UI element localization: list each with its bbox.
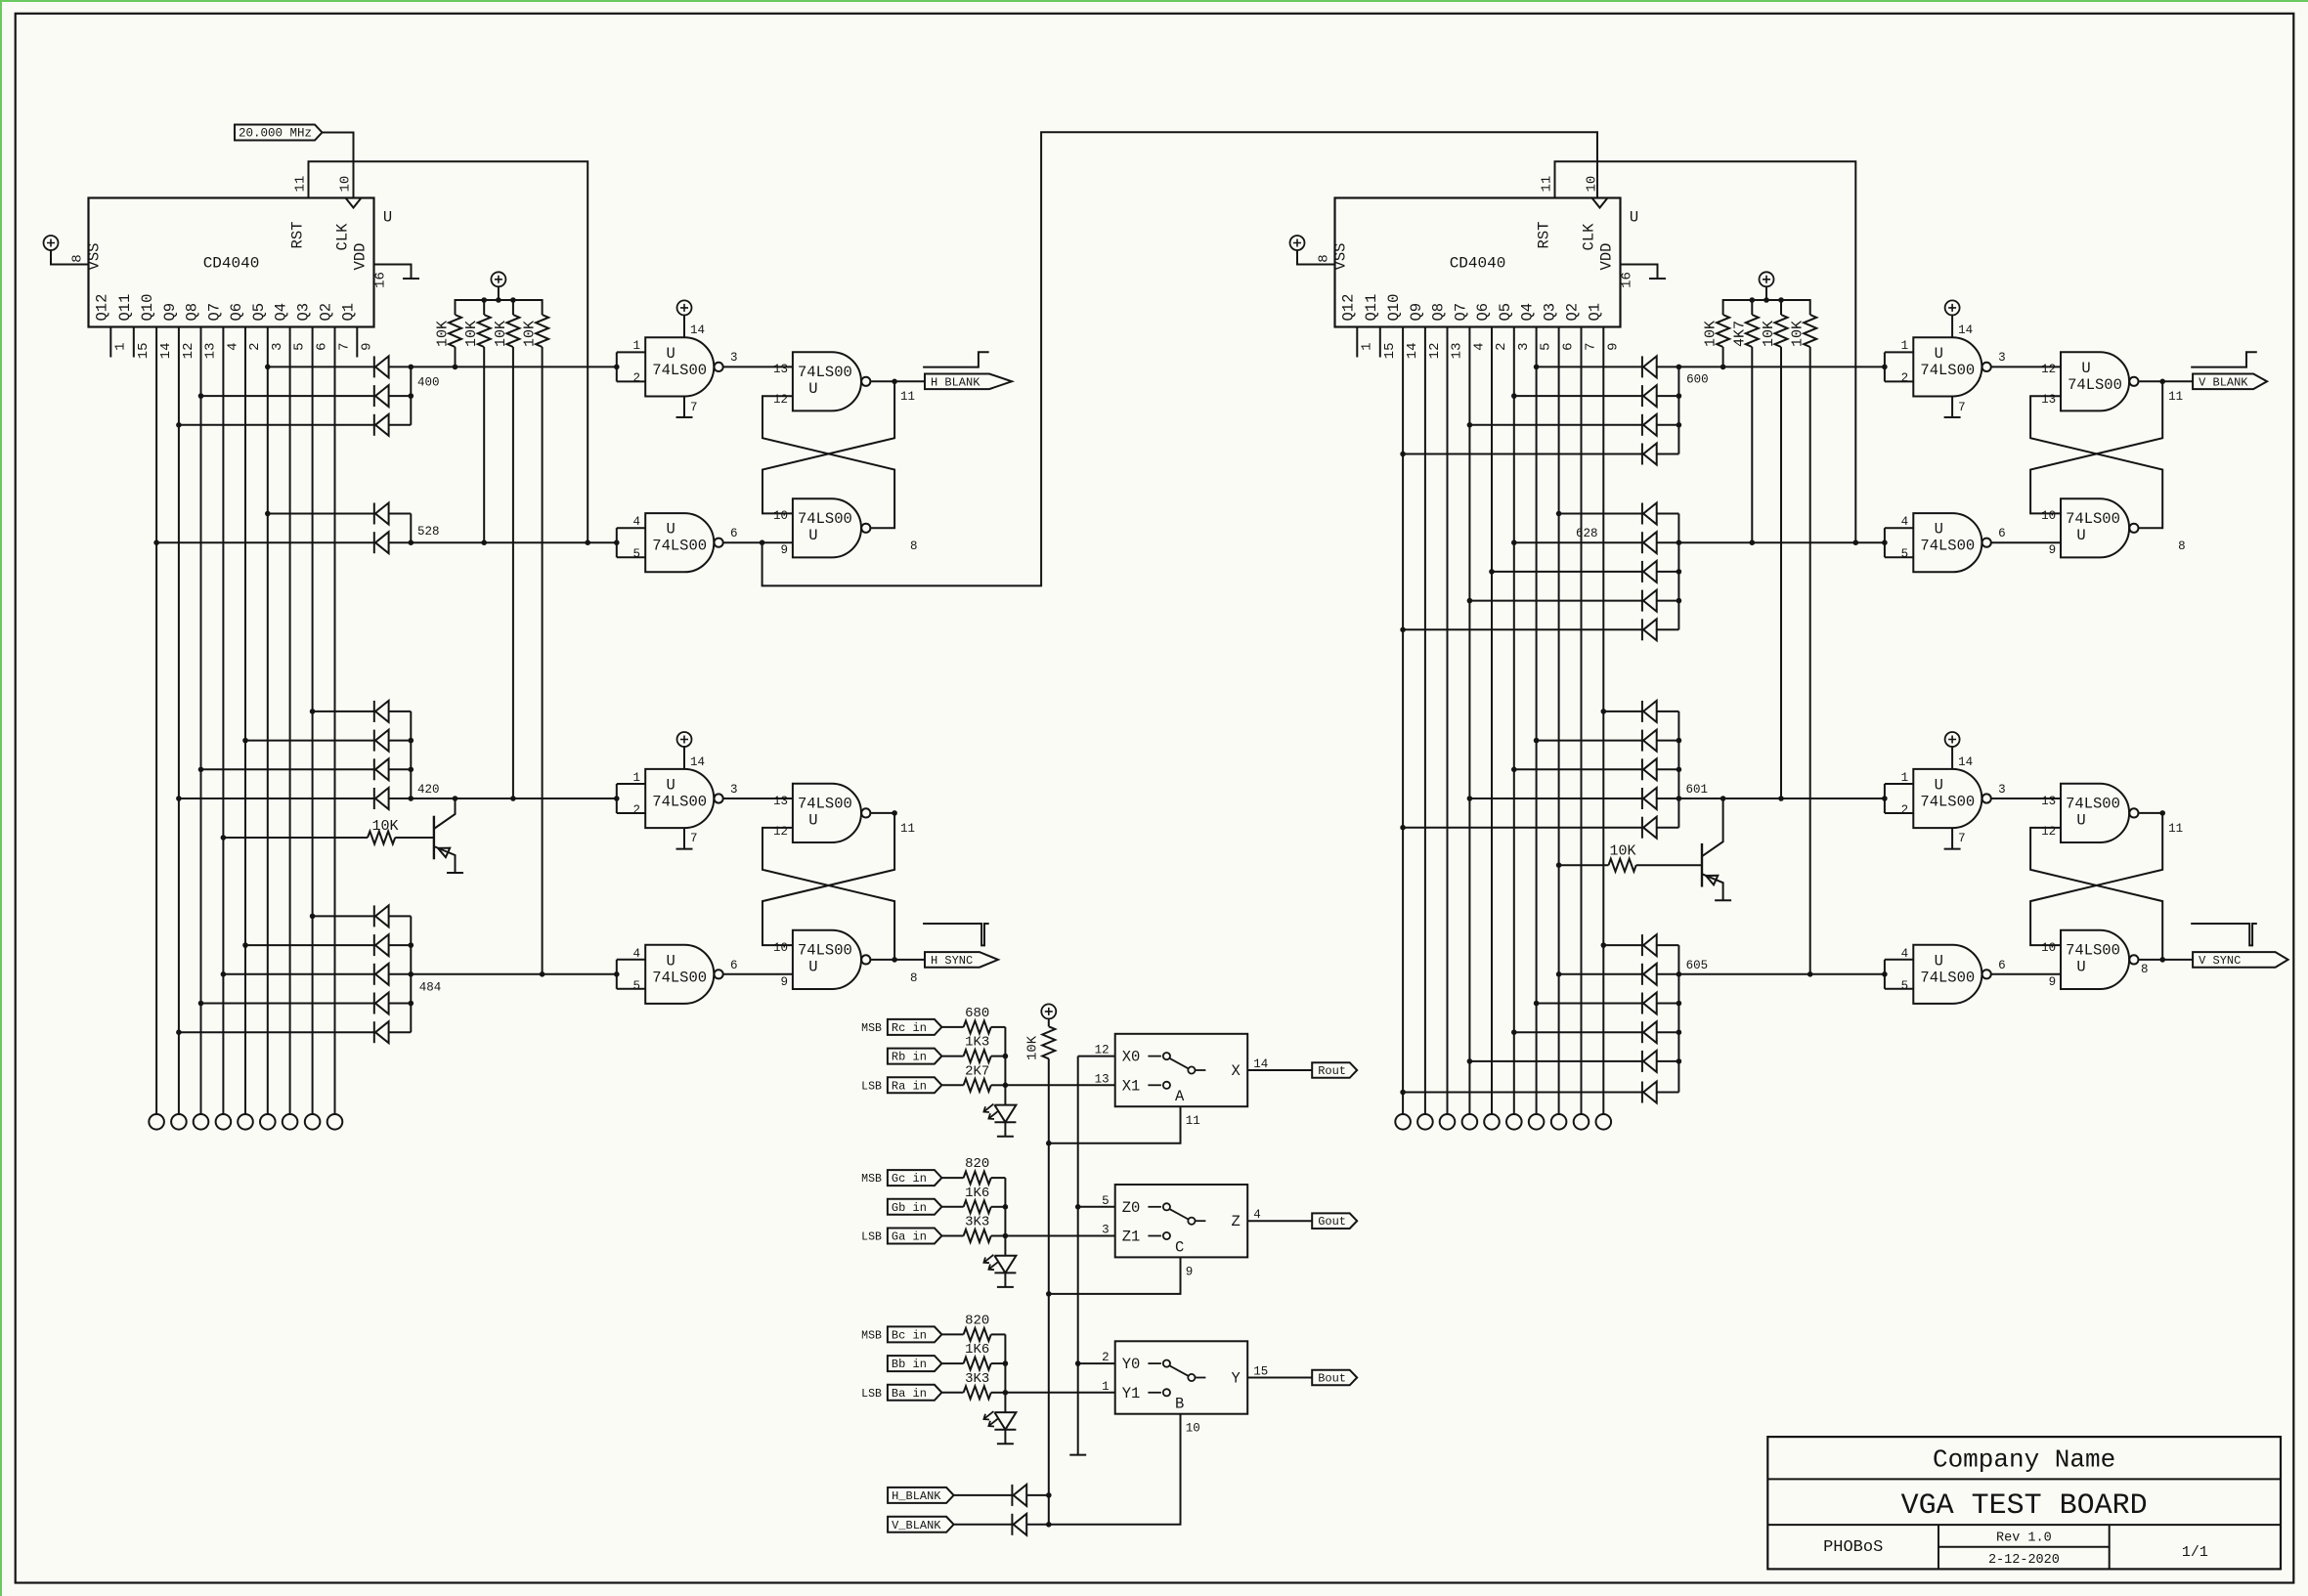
svg-text:9: 9 (1605, 343, 1621, 351)
wire Ga in resistor out (991, 1235, 1006, 1237)
diode 628 row Q3 (1642, 503, 1657, 525)
net tag Bout (1312, 1370, 1357, 1386)
svg-text:74LS00: 74LS00 (2066, 795, 2120, 812)
wire Q8 to diode 420 (201, 768, 374, 770)
svg-text:7: 7 (690, 832, 698, 845)
junction collector 628 row (1677, 598, 1682, 604)
svg-text:74LS00: 74LS00 (798, 795, 852, 812)
ground G3 pin7 (676, 848, 693, 850)
svg-text:74LS00: 74LS00 (1920, 969, 1975, 986)
svg-text:3: 3 (730, 783, 738, 797)
wire diode out 400 Q9 (389, 424, 412, 426)
connector pad Q10 right (1395, 1114, 1411, 1130)
wire LED B to ground (1004, 1430, 1006, 1445)
svg-text:5: 5 (632, 979, 640, 993)
wire C pin9 to control bus (1049, 1257, 1181, 1294)
wire G3 power stub (683, 747, 685, 769)
wire Q6 to diode 628 (1492, 571, 1642, 573)
NAND gate latch C 74LS00 (793, 784, 871, 842)
connector pad Q2 right (1574, 1114, 1589, 1130)
power +V resistor bank right (1760, 272, 1774, 286)
svg-text:Gout: Gout (1318, 1215, 1346, 1229)
svg-text:U: U (667, 345, 675, 363)
wire G5 gnd stub (1951, 397, 1953, 418)
svg-text:13: 13 (1450, 343, 1465, 360)
svg-text:10K: 10K (463, 321, 480, 347)
wire LED G to ground (1004, 1272, 1006, 1287)
junction Q3 column 420 (310, 709, 316, 714)
wire Rb in to resistor (942, 1056, 964, 1057)
svg-text:1K6: 1K6 (965, 1342, 989, 1358)
wire ground bus v2 vertical (1077, 1057, 1079, 1455)
NAND gate latch E 74LS00 (V blank) (2061, 352, 2138, 410)
wire bus column Q5 left (267, 341, 269, 1115)
wire G1 gnd stub (683, 397, 685, 418)
junction Q10 column 528 (153, 539, 159, 545)
LED green channel (983, 1255, 1016, 1273)
svg-text:Q7: Q7 (1452, 303, 1469, 322)
svg-text:RST: RST (1536, 222, 1553, 249)
svg-text:Q9: Q9 (1408, 303, 1425, 322)
svg-text:74LS00: 74LS00 (798, 364, 852, 381)
transistor Q2 right emitter ground (1715, 899, 1731, 901)
svg-text:Y0: Y0 (1122, 1356, 1141, 1373)
wire Gb in to resistor (942, 1206, 964, 1208)
wire collector vertical 605 (1677, 945, 1679, 1092)
svg-text:9: 9 (2049, 975, 2057, 989)
wire bus column Q3 right (1558, 341, 1560, 1115)
wire latch H out (2139, 959, 2193, 961)
wire Q8 to diode 484 (201, 1003, 374, 1005)
wire bus column Q8 left (200, 341, 202, 1115)
wire R7 to 601 net (1780, 347, 1782, 798)
power +V G3 (677, 732, 692, 747)
wire diode out 628 Q3 (1657, 513, 1679, 515)
wire 605 net (1657, 973, 1885, 975)
junction H SYNC node (892, 957, 897, 963)
diode 601 row Q5 (1642, 758, 1657, 780)
wire VSS to pin 8 U2 (1297, 250, 1335, 265)
diode 601 row Q7 (1642, 788, 1657, 809)
svg-text:U: U (1935, 952, 1943, 970)
wire summing column B (1004, 1334, 1006, 1412)
svg-text:Q1: Q1 (339, 303, 357, 322)
svg-text:3: 3 (1998, 351, 2006, 365)
svg-text:3: 3 (1998, 783, 2006, 797)
junction summing G a (1003, 1233, 1009, 1239)
svg-text:CD4040: CD4040 (203, 255, 260, 273)
wire diode out 484 Q3 (389, 915, 412, 917)
wire Ra in resistor out (991, 1084, 1006, 1086)
wire v2 to Y0 (1078, 1362, 1115, 1364)
wire latch G feedback down (2030, 813, 2162, 945)
svg-text:7: 7 (337, 343, 353, 351)
diode 420 row Q6 (374, 730, 389, 752)
svg-text:1/1: 1/1 (2182, 1544, 2208, 1561)
svg-text:14: 14 (1958, 324, 1973, 337)
diode 400 row Q5 (374, 356, 389, 377)
diode 400 row Q9 (374, 414, 389, 436)
wire bus column Q2 right (1581, 341, 1583, 1115)
svg-text:7: 7 (1584, 343, 1599, 351)
power +V G1 (677, 300, 692, 315)
wire diode out 420 Q8 (389, 768, 412, 770)
junction control bus pin9 C (1046, 1291, 1052, 1297)
svg-text:9: 9 (780, 975, 788, 989)
wire base resistor right (1559, 864, 1609, 866)
junction rail R2 (481, 297, 487, 303)
svg-text:CLK: CLK (1581, 223, 1598, 251)
wire ground bus v2 (1078, 1056, 1115, 1057)
junction Q6 column 484 (242, 942, 248, 948)
svg-text:6: 6 (730, 959, 738, 972)
svg-text:U: U (1935, 521, 1943, 539)
power +V control pull-up (1041, 1004, 1056, 1018)
svg-text:Ga in: Ga in (892, 1230, 927, 1244)
wire Q5 to diode 605 (1514, 1031, 1642, 1033)
connector pad Q6 left (238, 1114, 253, 1130)
svg-text:4: 4 (1253, 1208, 1261, 1222)
wire latch D out (871, 959, 925, 961)
wire Q8 to diode 400 (201, 395, 374, 397)
wire latch E feedback down (2030, 381, 2162, 513)
svg-text:400: 400 (417, 376, 440, 390)
svg-text:6: 6 (730, 527, 738, 540)
wire RST U1 to 528 net (309, 161, 588, 542)
connector pad Q10 left (149, 1114, 164, 1130)
junction 601 net transistor collector (1720, 796, 1726, 801)
svg-text:9: 9 (2049, 543, 2057, 557)
ground at VDD U1 (403, 278, 419, 280)
svg-text:13: 13 (203, 343, 219, 360)
junction collector 601 net row (1677, 796, 1682, 801)
junction Q8 column 484 (198, 1001, 204, 1007)
diode 628 row Q7 (1642, 590, 1657, 612)
ground G7 pin7 (1944, 848, 1961, 850)
wire G1 out to latch A (723, 366, 793, 367)
resistor R2 10K pull-up left (478, 315, 491, 347)
svg-text:8: 8 (2141, 963, 2149, 976)
junction 528 net RST (585, 539, 590, 545)
wire Gc in resistor out (991, 1177, 1006, 1179)
svg-text:5: 5 (1102, 1194, 1110, 1208)
svg-text:9: 9 (780, 543, 788, 557)
svg-text:X0: X0 (1122, 1049, 1141, 1066)
NAND gate latch F 74LS00 (V latch) (2061, 498, 2138, 557)
wire Gb in resistor out (991, 1206, 1006, 1208)
svg-text:RST: RST (289, 222, 307, 249)
svg-text:628: 628 (1576, 527, 1598, 540)
waveform icon H SYNC (923, 924, 989, 945)
svg-text:U: U (667, 777, 675, 795)
svg-text:10K: 10K (371, 818, 398, 835)
svg-text:1: 1 (1359, 343, 1374, 351)
junction 605 net R8 (1807, 971, 1813, 977)
junction collector 605 row (1677, 1001, 1682, 1007)
wire latch A feedback down (762, 381, 894, 513)
wire G3 gnd stub (683, 828, 685, 849)
junction collector 420 row (409, 767, 414, 773)
wire bus column Q6 right (1491, 341, 1493, 1115)
svg-text:12: 12 (1095, 1044, 1110, 1057)
junction Q3 base resistor right (1556, 862, 1562, 868)
wire diode out 605 Q7 (1657, 1060, 1679, 1062)
svg-text:13: 13 (2041, 795, 2056, 808)
svg-text:10: 10 (2041, 509, 2056, 523)
diode 605 row Q4 (1642, 993, 1657, 1014)
svg-text:74LS00: 74LS00 (1920, 538, 1975, 555)
wire Q3 to diode 484 (313, 915, 374, 917)
wire resistor to base left (395, 837, 434, 839)
svg-text:10K: 10K (493, 321, 509, 347)
junction Q7 column 600 (1467, 422, 1473, 428)
wire bus column Q4 right (1536, 341, 1538, 1115)
LED red channel (983, 1104, 1016, 1123)
svg-text:Q2: Q2 (318, 303, 335, 322)
wire diode out 484 Q6 (389, 944, 412, 946)
svg-text:3: 3 (730, 351, 738, 365)
net tag Ga in input (888, 1229, 942, 1244)
junction summing B b (1003, 1360, 1009, 1366)
junction Q9 column 420 (176, 796, 182, 801)
wire Q7 to diode 484 (223, 973, 373, 975)
junction Q10 column 605 (1400, 1090, 1406, 1096)
svg-text:14: 14 (158, 343, 174, 360)
junction collector 605 row (1677, 1029, 1682, 1035)
wire 528 to V counter clock (762, 132, 1597, 585)
net tag V SYNC output (2193, 952, 2288, 968)
wire Ra net to X1 (1005, 1084, 1114, 1086)
junction summing G b (1003, 1204, 1009, 1210)
svg-text:14: 14 (690, 324, 705, 337)
wire diode out 605 Q5 (1657, 1031, 1679, 1033)
junction Q5 column 528 (265, 511, 271, 517)
ground bus v2 ground (1069, 1454, 1086, 1456)
svg-text:5: 5 (1901, 547, 1909, 561)
wire Ba net to Y1 (1005, 1392, 1114, 1394)
net tag Rout (1312, 1062, 1357, 1078)
junction 420 at bracket (614, 796, 620, 801)
wire Q4 to diode 601 (1537, 740, 1642, 742)
wire Q7 to diode 601 (1469, 798, 1642, 799)
wire Ra in to resistor (942, 1084, 964, 1086)
junction Q9 column 484 (176, 1029, 182, 1035)
power +V G7 (1945, 732, 1960, 747)
net tag Bb in input (888, 1356, 942, 1371)
wire diode out 528 Q5 (389, 513, 412, 515)
svg-text:1: 1 (112, 343, 128, 351)
svg-text:14: 14 (1405, 343, 1420, 360)
junction 400 net R1 (453, 365, 458, 370)
wire Ga in to resistor (942, 1235, 964, 1237)
svg-text:4K7: 4K7 (1731, 321, 1748, 347)
svg-text:600: 600 (1686, 372, 1709, 386)
svg-text:10: 10 (773, 509, 788, 523)
wire R4 to 484 net (542, 347, 544, 974)
wire VDD pin 16 (374, 265, 412, 280)
diode 628 row Q10 (1642, 619, 1657, 640)
wire diode out 484 Q9 (389, 1031, 412, 1033)
svg-text:Bb in: Bb in (892, 1358, 927, 1371)
resistor 820 Bc in (964, 1328, 991, 1341)
junction Q3 column 484 (310, 914, 316, 920)
svg-text:74LS00: 74LS00 (652, 794, 707, 811)
svg-text:484: 484 (419, 981, 442, 995)
connector pad Q8 right (1440, 1114, 1456, 1130)
svg-text:LSB: LSB (861, 1231, 882, 1244)
svg-text:VGA TEST BOARD: VGA TEST BOARD (1901, 1489, 2148, 1523)
wire base resistor left (223, 837, 368, 839)
svg-text:820: 820 (965, 1156, 989, 1172)
svg-text:4: 4 (225, 343, 240, 351)
svg-text:C: C (1175, 1238, 1184, 1256)
wire diode out 628 Q6 (1657, 571, 1679, 573)
svg-text:MSB: MSB (861, 1022, 882, 1035)
wire latch H feedback up (2030, 828, 2162, 960)
svg-text:A: A (1175, 1088, 1185, 1105)
svg-text:Q2: Q2 (1564, 303, 1582, 322)
svg-text:3K3: 3K3 (965, 1215, 989, 1230)
NAND gate G4 74LS00 (484) (645, 945, 723, 1004)
svg-text:6: 6 (1561, 343, 1577, 351)
wire G5 out to latch E (1991, 366, 2061, 367)
wire G3 out to latch C (723, 798, 793, 799)
junction collector 484 net row (409, 971, 414, 977)
junction Q9 column 400 (176, 422, 182, 428)
wire Rc in to resistor (942, 1026, 964, 1028)
svg-text:Y1: Y1 (1122, 1385, 1141, 1402)
junction Q7 column 601 (1467, 796, 1473, 801)
diode 600 row Q10 (1642, 444, 1657, 465)
junction Q6 column 628 (1489, 569, 1495, 575)
connector pad Q7 left (216, 1114, 232, 1130)
svg-text:Q3: Q3 (1542, 303, 1559, 322)
svg-text:6: 6 (1998, 959, 2006, 972)
svg-text:680: 680 (965, 1006, 989, 1021)
svg-text:U: U (2076, 958, 2085, 975)
wire G8 out (1991, 973, 2061, 975)
svg-text:4: 4 (632, 515, 640, 529)
svg-text:74LS00: 74LS00 (2066, 941, 2120, 959)
svg-text:V SYNC: V SYNC (2199, 954, 2241, 968)
wire R1 to 400 net (455, 347, 457, 367)
svg-text:10K: 10K (435, 321, 452, 347)
svg-text:15: 15 (136, 343, 152, 360)
wire R5 to 600 net (1722, 347, 1724, 367)
svg-text:1: 1 (632, 771, 640, 785)
svg-text:5: 5 (1901, 979, 1909, 993)
svg-text:U: U (1630, 209, 1638, 227)
svg-text:Q11: Q11 (1363, 294, 1380, 322)
junction v2 Y0 row (1075, 1360, 1081, 1366)
junction Q7 base resistor left (221, 835, 227, 841)
wire bus column Q1 right (1602, 341, 1604, 1115)
junction Q5 column 400 (265, 365, 271, 370)
svg-text:Q1: Q1 (1586, 303, 1603, 322)
wire collector vertical 601 (1677, 712, 1679, 828)
wire bus column Q7 left (222, 341, 224, 1115)
svg-text:Q6: Q6 (1474, 303, 1492, 322)
junction collector 628 row (1677, 569, 1682, 575)
wire 628 net (1657, 541, 1885, 543)
wire H_BLANK diode to bus (1026, 1494, 1049, 1496)
analog switch box C (green) (1115, 1185, 1248, 1257)
junction collector 400 net row (409, 365, 414, 370)
wire Q3 to diode 628 (1559, 513, 1642, 515)
svg-text:U: U (2076, 527, 2085, 544)
svg-text:Ra in: Ra in (892, 1079, 927, 1093)
svg-text:12: 12 (181, 343, 196, 360)
svg-text:15: 15 (1382, 343, 1398, 360)
junction Q5 column 605 (1511, 1029, 1517, 1035)
resistor 1K6 Bb in (964, 1358, 991, 1370)
wire diode out 400 Q8 (389, 395, 412, 397)
svg-text:X: X (1232, 1062, 1241, 1080)
svg-text:10K: 10K (1609, 843, 1635, 860)
wire Q1 to diode 601 (1603, 711, 1642, 712)
diode 628 row Q6 (1642, 561, 1657, 582)
resistor 1K6 Gb in (964, 1200, 991, 1213)
diode 484 row Q3 (374, 905, 389, 927)
wire VSS to pin 8 (51, 250, 89, 265)
junction Q1 column 605 (1601, 942, 1607, 948)
svg-text:U: U (808, 380, 817, 398)
junction control bus H_BLANK (1046, 1492, 1052, 1498)
net tag Ra in input (888, 1077, 942, 1093)
junction Q5 column 601 (1511, 767, 1517, 773)
junction summing B a (1003, 1390, 1009, 1396)
junction 600 net R5 (1720, 365, 1726, 370)
svg-text:Z: Z (1232, 1213, 1241, 1230)
svg-text:Rev 1.0: Rev 1.0 (1996, 1531, 2052, 1546)
wire Q3 to diode 605 (1559, 973, 1642, 975)
wire diode out 601 Q5 (1657, 768, 1679, 770)
resistor 1K3 Rb in (964, 1050, 991, 1062)
net tag H BLANK output (925, 374, 1012, 390)
wire +V to rail (498, 286, 500, 300)
connector pad Q9 left (171, 1114, 187, 1130)
wire Q5 to diode 528 (268, 513, 374, 515)
NAND gate latch G 74LS00 (2061, 784, 2138, 842)
wire Q7 to diode 600 (1469, 424, 1642, 426)
junction control bus pin11 A (1046, 1141, 1052, 1146)
wire bus column Q9 left (178, 341, 180, 1115)
svg-text:10K: 10K (522, 321, 539, 347)
ground LED G (997, 1286, 1014, 1288)
wire Rc in resistor out (991, 1026, 1006, 1028)
svg-text:CD4040: CD4040 (1450, 255, 1506, 273)
junction collector 601 row (1677, 767, 1682, 773)
wire +V to 10K (1048, 1018, 1050, 1026)
svg-text:1K3: 1K3 (965, 1035, 989, 1051)
svg-text:Q5: Q5 (250, 303, 268, 322)
wire collector vertical 528 (410, 514, 412, 543)
svg-text:4: 4 (1471, 343, 1487, 351)
wire latch G out (2139, 812, 2162, 814)
wire summing column G (1004, 1178, 1006, 1256)
wire R8 to 605 net (1809, 347, 1811, 974)
junction rail R3 (510, 297, 516, 303)
wire G7 gnd stub (1951, 828, 1953, 849)
svg-text:VSS: VSS (1332, 243, 1350, 271)
svg-text:20.000 MHz: 20.000 MHz (239, 127, 312, 141)
wire G5 power stub (1951, 315, 1953, 337)
junction V SYNC node (2159, 957, 2165, 963)
wire Rb in resistor out (991, 1056, 1006, 1057)
wire diode out 601 Q1 (1657, 711, 1679, 712)
connector pad Q7 right (1462, 1114, 1478, 1130)
svg-text:2-12-2020: 2-12-2020 (1988, 1553, 2060, 1568)
